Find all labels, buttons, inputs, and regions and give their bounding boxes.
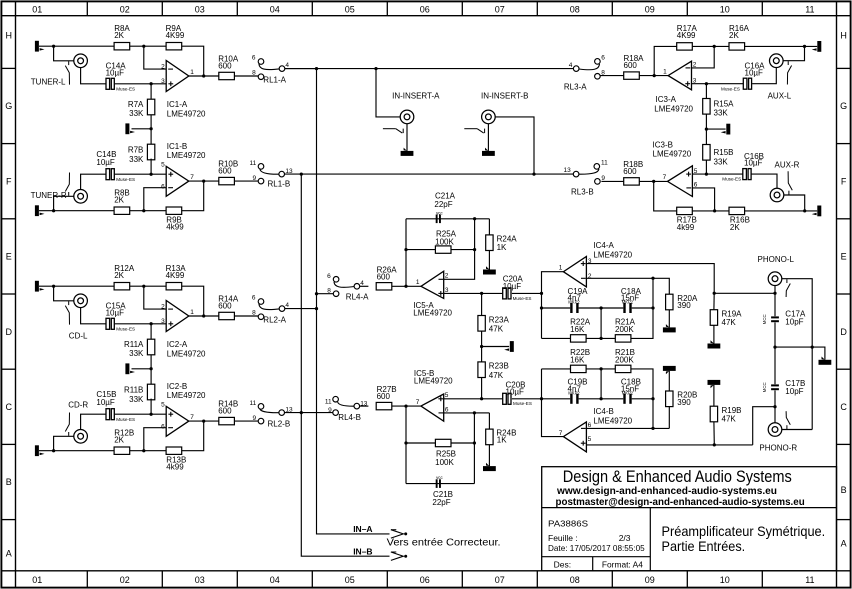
- svg-text:600: 600: [624, 61, 638, 70]
- svg-text:Muse-ES: Muse-ES: [722, 177, 741, 182]
- switch hook PHONO-L: [786, 279, 788, 283]
- node cap row B right: [651, 397, 654, 400]
- svg-text:A: A: [6, 549, 12, 559]
- resistor R15A 33K: [703, 99, 710, 115]
- node R23A top: [480, 292, 483, 295]
- resistor R12B 2K: [114, 447, 130, 454]
- ground IN-INSERT-B: [487, 124, 489, 151]
- svg-text:Muse-ES: Muse-ES: [116, 177, 135, 182]
- svg-text:10pF: 10pF: [785, 318, 803, 327]
- wire jack PHONO-R: [774, 407, 776, 423]
- svg-text:11: 11: [805, 4, 814, 14]
- svg-text:F: F: [6, 176, 12, 186]
- title block: [542, 467, 837, 571]
- svg-text:33K: 33K: [129, 395, 144, 404]
- svg-text:LME49720: LME49720: [653, 150, 692, 159]
- relay contact RL2-A: [258, 299, 264, 305]
- svg-text:10µF: 10µF: [106, 308, 125, 317]
- svg-text:9: 9: [252, 175, 256, 182]
- switch hook TUNER-L: [68, 61, 70, 65]
- svg-text:4k99: 4k99: [677, 223, 695, 232]
- resistor R23A 47K: [478, 316, 485, 332]
- svg-text:9: 9: [252, 415, 256, 422]
- resistor R20B 390: [666, 391, 673, 407]
- svg-text:PHONO-R: PHONO-R: [759, 444, 797, 453]
- node +input: [149, 322, 152, 325]
- svg-text:Muse-ES: Muse-ES: [721, 86, 740, 91]
- relay contact RL3-B: [594, 164, 600, 170]
- wire IC4-A -input: [586, 278, 669, 294]
- resistor R12A 2K: [114, 283, 130, 290]
- svg-text:4K99: 4K99: [166, 271, 185, 280]
- node TUNER-L branch: [52, 45, 55, 48]
- node TUNER-R branch: [52, 209, 55, 212]
- svg-text:11: 11: [601, 159, 608, 166]
- svg-text:10: 10: [720, 575, 730, 585]
- svg-text:16K: 16K: [570, 355, 585, 364]
- node IC4-B out C20B: [540, 397, 543, 400]
- wire feedback: [182, 421, 204, 451]
- ground IC5 divider: [510, 341, 514, 352]
- svg-text:Muse-ES: Muse-ES: [513, 401, 532, 406]
- svg-text:9: 9: [601, 175, 605, 182]
- svg-text:2: 2: [445, 273, 449, 280]
- op-amp IC4-B: [563, 422, 586, 452]
- svg-text:H: H: [6, 30, 13, 40]
- node phono mid: [773, 345, 776, 348]
- svg-text:11: 11: [249, 400, 256, 407]
- capacitor C17A 10pF: [771, 316, 779, 318]
- wire PHONO-L switch: [782, 279, 812, 430]
- node res row A mid: [599, 337, 602, 340]
- svg-text:AUX-L: AUX-L: [768, 92, 792, 101]
- wire IC4-B out: [542, 369, 564, 437]
- op-amp IC5-A: [421, 271, 444, 298]
- svg-text:10µF: 10µF: [503, 282, 522, 291]
- wire to relay RL3-B: [601, 180, 623, 182]
- svg-text:1: 1: [190, 69, 194, 76]
- wire output IC3-B: [639, 180, 667, 182]
- node pin6-R20B: [651, 427, 654, 430]
- svg-text:08: 08: [570, 4, 580, 14]
- ground AUX-R input: [817, 206, 821, 217]
- capacitor C17B 10pF: [771, 384, 779, 386]
- resistor R10A 600: [219, 72, 235, 79]
- capacitor C18A 15nF: [623, 303, 625, 313]
- connector AUX-R: [770, 188, 784, 202]
- svg-text:G: G: [840, 101, 847, 111]
- svg-text:1: 1: [663, 68, 667, 75]
- node pin2-R20A: [651, 277, 654, 280]
- switch hook AUX-L: [787, 61, 789, 65]
- wire R25A row: [406, 249, 435, 251]
- resistor R9A 4K99: [166, 43, 182, 50]
- relay contact RL4-B: [333, 396, 339, 402]
- op-amp IC5-B: [421, 394, 444, 421]
- connector PHONO-R: [768, 423, 782, 437]
- node cap row A mid: [599, 306, 602, 309]
- resistor R14A 600: [219, 312, 235, 319]
- svg-text:02: 02: [120, 4, 130, 14]
- node bus-A RL4-A: [315, 292, 318, 295]
- svg-text:04: 04: [270, 575, 280, 585]
- switch hook IN-INSERT-A: [383, 128, 396, 130]
- wire inverting input: [144, 428, 166, 451]
- wire IC5-B +input: [444, 398, 503, 400]
- relay contact RL3-A: [595, 59, 601, 65]
- connector CD-R: [74, 430, 88, 444]
- svg-text:22pF: 22pF: [434, 200, 452, 209]
- resistor R13B 4k99: [166, 447, 182, 454]
- svg-text:Muse-ES: Muse-ES: [116, 86, 135, 91]
- capacitor C14B 10µF: [106, 169, 110, 180]
- node res row B mid: [599, 367, 602, 370]
- connector IN-INSERT-A: [400, 110, 414, 124]
- svg-text:R7A: R7A: [128, 100, 144, 109]
- svg-text:7: 7: [663, 174, 667, 181]
- resistor R8B 2K: [114, 207, 130, 214]
- wire to relay: [234, 75, 258, 77]
- svg-text:MKP2: MKP2: [568, 390, 580, 395]
- svg-text:B: B: [841, 485, 847, 495]
- wire jack to cap: [752, 68, 776, 84]
- wire to relay: [234, 180, 258, 182]
- resistor R17B 4k99: [677, 207, 693, 214]
- svg-text:2K: 2K: [729, 31, 739, 40]
- svg-text:7: 7: [190, 174, 194, 181]
- capacitor C20B 10µF: [503, 393, 507, 404]
- svg-text:3: 3: [161, 318, 165, 325]
- node R8A-R9A: [142, 45, 145, 48]
- svg-text:47K: 47K: [722, 318, 737, 327]
- ground R20B: [663, 366, 676, 371]
- wire inverting input AUX-R: [692, 188, 714, 211]
- svg-text:IC2-A: IC2-A: [167, 340, 188, 349]
- switch hook AUX-R: [788, 191, 790, 195]
- node insert-A tap: [374, 67, 377, 70]
- wire inverting input: [144, 286, 166, 309]
- svg-text:E: E: [6, 252, 12, 262]
- wire RL-row: [285, 412, 333, 414]
- node IC4-A out C20A: [540, 292, 543, 295]
- wire insert-B: [495, 117, 534, 174]
- svg-text:Muse-ES: Muse-ES: [116, 417, 135, 422]
- ground R19A: [713, 325, 715, 343]
- svg-text:PHONO-L: PHONO-L: [758, 255, 795, 264]
- svg-text:600: 600: [218, 302, 232, 311]
- svg-text:D: D: [840, 327, 847, 337]
- svg-text:03: 03: [195, 575, 205, 585]
- wire C21A row: [406, 218, 489, 220]
- svg-text:D: D: [6, 327, 13, 337]
- node cap row B mid: [599, 397, 602, 400]
- svg-text:CD-R: CD-R: [68, 401, 88, 410]
- svg-text:Préamplificateur Symétrique.: Préamplificateur Symétrique.: [662, 523, 826, 539]
- resistor R11B 33K: [147, 384, 154, 400]
- connector AUX-L: [770, 54, 784, 68]
- relay contact RL1-A: [258, 59, 264, 65]
- svg-text:5: 5: [445, 392, 449, 399]
- capacitor C18B 15nF: [623, 394, 625, 404]
- op-amp IC2-A: [166, 301, 189, 332]
- wire RL4-A to R26A: [360, 285, 369, 287]
- ground IN-INSERT-A: [406, 124, 408, 151]
- svg-text:5: 5: [161, 401, 165, 408]
- node CD-R branch: [52, 449, 55, 452]
- wire R27B out: [392, 405, 421, 407]
- relay contact RL4-A: [333, 277, 339, 283]
- node cap row A right: [651, 306, 654, 309]
- svg-text:390: 390: [677, 398, 691, 407]
- resistor R7B 33K: [147, 144, 154, 160]
- arrow IN-B output: [391, 552, 403, 560]
- svg-text:7: 7: [190, 414, 194, 421]
- ground IC2 divider: [125, 363, 129, 374]
- svg-text:1: 1: [416, 279, 420, 286]
- svg-text:MKP2: MKP2: [622, 390, 634, 395]
- svg-text:Partie Entrées.: Partie Entrées.: [662, 538, 746, 554]
- node R25A right: [473, 248, 476, 251]
- capacitor C19A 4n7: [570, 303, 572, 313]
- node R19B bottom: [713, 443, 716, 446]
- node output-feedback: [202, 314, 205, 317]
- svg-text:16K: 16K: [570, 325, 585, 334]
- svg-text:11: 11: [249, 160, 256, 167]
- svg-text:Format: A4: Format: A4: [602, 559, 643, 569]
- svg-text:7: 7: [559, 430, 563, 437]
- connector TUNER-R: [74, 190, 88, 204]
- svg-text:2: 2: [161, 63, 165, 70]
- node phono-R: [773, 405, 776, 408]
- wire feedback: [182, 46, 204, 76]
- resistor R27B 600: [376, 402, 392, 409]
- svg-text:IC4-A: IC4-A: [593, 241, 614, 250]
- svg-text:5: 5: [161, 161, 165, 168]
- wire to relay: [234, 420, 258, 422]
- svg-text:G: G: [5, 101, 12, 111]
- op-amp IC2-B: [166, 406, 189, 436]
- node insert-B tap: [532, 172, 535, 175]
- op-amp IC3-B: [668, 166, 693, 197]
- svg-text:4k99: 4k99: [166, 223, 184, 232]
- wire pin2 vertical: [444, 219, 475, 279]
- svg-text:1: 1: [559, 264, 563, 271]
- svg-text:47K: 47K: [489, 371, 504, 380]
- capacitor C15A 10µF: [106, 318, 110, 329]
- wire feedback: [654, 46, 677, 75]
- svg-text:RL4-B: RL4-B: [338, 413, 361, 422]
- node R17A-R16A: [713, 45, 716, 48]
- svg-text:600: 600: [377, 273, 391, 282]
- svg-text:08: 08: [570, 575, 580, 585]
- resistor R22A 16K: [571, 335, 587, 342]
- svg-text:LME49720: LME49720: [654, 105, 693, 114]
- wire feedback AUX-R: [654, 181, 677, 211]
- wire R26A out: [392, 285, 421, 287]
- svg-text:LME49720: LME49720: [167, 349, 206, 358]
- op-amp IC1-A: [166, 61, 189, 92]
- svg-text:33K: 33K: [714, 157, 729, 166]
- svg-text:2: 2: [693, 62, 697, 69]
- svg-text:09: 09: [645, 575, 655, 585]
- svg-text:2K: 2K: [114, 435, 124, 444]
- svg-text:RL4-A: RL4-A: [346, 293, 369, 302]
- node bus-B tap: [300, 172, 303, 175]
- resistor R25A 100K: [435, 246, 451, 253]
- wire bus-A vertical: [317, 69, 390, 534]
- svg-text:F: F: [841, 176, 847, 186]
- svg-text:100K: 100K: [435, 237, 454, 246]
- svg-text:IC3-B: IC3-B: [653, 141, 673, 150]
- wire mid to gnd: [775, 346, 812, 348]
- svg-text:6: 6: [161, 184, 165, 191]
- svg-text:47K: 47K: [489, 325, 504, 334]
- node +input AUX-R: [705, 172, 708, 175]
- svg-text:01: 01: [32, 4, 42, 14]
- svg-text:200K: 200K: [615, 355, 634, 364]
- node bus-B RL-row: [300, 411, 303, 414]
- svg-text:33K: 33K: [129, 349, 144, 358]
- wire caps-res A mid: [600, 308, 602, 338]
- ground R24A: [488, 251, 490, 270]
- resistor R17A 4K99: [677, 43, 693, 50]
- ground IC3 bias divider: [726, 124, 730, 135]
- node output-feedback: [202, 419, 205, 422]
- wire RL2-A common: [285, 308, 317, 310]
- svg-text:10pF: 10pF: [785, 387, 803, 396]
- wire output: [189, 420, 219, 422]
- capacitor C15B 10µF: [106, 409, 110, 420]
- svg-text:8: 8: [252, 309, 256, 316]
- svg-text:IC4-B: IC4-B: [593, 407, 613, 416]
- capacitor C19B 4n7: [570, 394, 572, 404]
- svg-text:8: 8: [252, 69, 256, 76]
- wire IC5-A fb vertical: [405, 219, 407, 286]
- svg-text:5: 5: [588, 436, 592, 443]
- switch hook PHONO-R: [786, 425, 788, 429]
- svg-text:LME49720: LME49720: [167, 391, 206, 400]
- node IC5 bias: [480, 345, 483, 348]
- node R25A left: [404, 248, 407, 251]
- ground IC1 divider: [125, 123, 129, 134]
- svg-text:4k99: 4k99: [166, 463, 184, 472]
- wire inverting input: [692, 46, 715, 68]
- svg-text:03: 03: [195, 4, 205, 14]
- svg-text:AUX-R: AUX-R: [775, 161, 800, 170]
- wire pin6 vertical: [444, 413, 475, 484]
- node output-feedback: [202, 74, 205, 77]
- svg-text:100K: 100K: [435, 458, 454, 467]
- wire to relay RL3-A: [600, 75, 624, 77]
- svg-text:RL2-A: RL2-A: [263, 315, 286, 324]
- svg-text:600: 600: [218, 407, 232, 416]
- node CD-L branch: [52, 285, 55, 288]
- wire R15A-R15B: [705, 129, 707, 144]
- svg-text:Des:: Des:: [554, 559, 571, 569]
- svg-text:IC2-B: IC2-B: [167, 382, 187, 391]
- wire caps-res B mid: [600, 369, 602, 399]
- resistor R18A 600: [624, 72, 640, 79]
- resistor R18B 600: [624, 178, 640, 185]
- resistor R19A 47K: [710, 310, 717, 326]
- svg-text:LME49720: LME49720: [413, 309, 452, 318]
- svg-text:200K: 200K: [615, 325, 634, 334]
- svg-text:C: C: [6, 402, 13, 412]
- capacitor C21B 22pF: [436, 479, 438, 488]
- svg-text:5: 5: [694, 168, 698, 175]
- svg-text:8: 8: [601, 70, 605, 77]
- wire output: [189, 315, 219, 317]
- wire cap row A: [542, 307, 571, 309]
- resistor R26A 600: [376, 283, 392, 290]
- node cap row A left: [540, 306, 543, 309]
- node R8B-R9B: [142, 209, 145, 212]
- svg-text:10µF: 10µF: [744, 159, 763, 168]
- svg-text:IC1-A: IC1-A: [167, 100, 188, 109]
- svg-text:1K: 1K: [497, 243, 507, 252]
- svg-text:IN-INSERT-A: IN-INSERT-A: [392, 92, 440, 101]
- svg-text:4: 4: [569, 62, 573, 69]
- svg-text:IN-INSERT-B: IN-INSERT-B: [481, 92, 528, 101]
- svg-text:1K: 1K: [497, 436, 507, 445]
- node R19A top: [713, 292, 716, 295]
- node IC3 bias: [705, 127, 708, 130]
- resistor R20A 390: [666, 294, 673, 310]
- node output-feedback: [202, 179, 205, 182]
- svg-text:IC3-A: IC3-A: [656, 95, 677, 104]
- svg-text:R11A: R11A: [124, 340, 144, 349]
- svg-text:22pF: 22pF: [432, 498, 450, 507]
- node R23B bottom: [480, 397, 483, 400]
- svg-text:01: 01: [32, 575, 42, 585]
- svg-text:LME49720: LME49720: [593, 416, 632, 425]
- resistor R15B 33K: [703, 145, 710, 161]
- resistor R22B 16K: [571, 365, 587, 372]
- wire feedback: [182, 286, 204, 316]
- capacitor C21A 22pF: [436, 215, 438, 224]
- wire bus select-B: [285, 173, 574, 175]
- svg-text:600: 600: [218, 62, 232, 71]
- svg-text:TUNER-R: TUNER-R: [31, 191, 67, 200]
- node output-feedback IC3-A: [653, 74, 656, 77]
- wire jack to cap: [81, 174, 106, 189]
- svg-text:10µF: 10µF: [506, 388, 525, 397]
- svg-text:RL3-A: RL3-A: [564, 82, 587, 91]
- svg-text:6: 6: [694, 182, 698, 189]
- svg-text:600: 600: [623, 167, 637, 176]
- svg-text:6: 6: [327, 273, 331, 280]
- node R17B-R16B: [713, 209, 716, 212]
- svg-text:2: 2: [161, 303, 165, 310]
- node R25B left: [404, 441, 407, 444]
- node bus-A RL2-A: [315, 307, 318, 310]
- resistor R16B 2K: [729, 207, 745, 214]
- svg-text:07: 07: [495, 4, 505, 14]
- svg-text:E: E: [841, 252, 847, 262]
- svg-text:R7B: R7B: [128, 146, 144, 155]
- wire res row B: [542, 368, 571, 370]
- svg-text:R11B: R11B: [124, 386, 143, 395]
- svg-text:05: 05: [345, 4, 355, 14]
- wire PHONO-R switch: [782, 429, 812, 431]
- node R25B right: [473, 441, 476, 444]
- resistor R24B 1K: [486, 429, 493, 445]
- connector CD-L: [74, 294, 88, 308]
- node +input: [149, 82, 152, 85]
- svg-text:6: 6: [161, 424, 165, 431]
- wire IC4-B -input: [586, 427, 669, 429]
- relay contact RL2-B: [258, 404, 264, 410]
